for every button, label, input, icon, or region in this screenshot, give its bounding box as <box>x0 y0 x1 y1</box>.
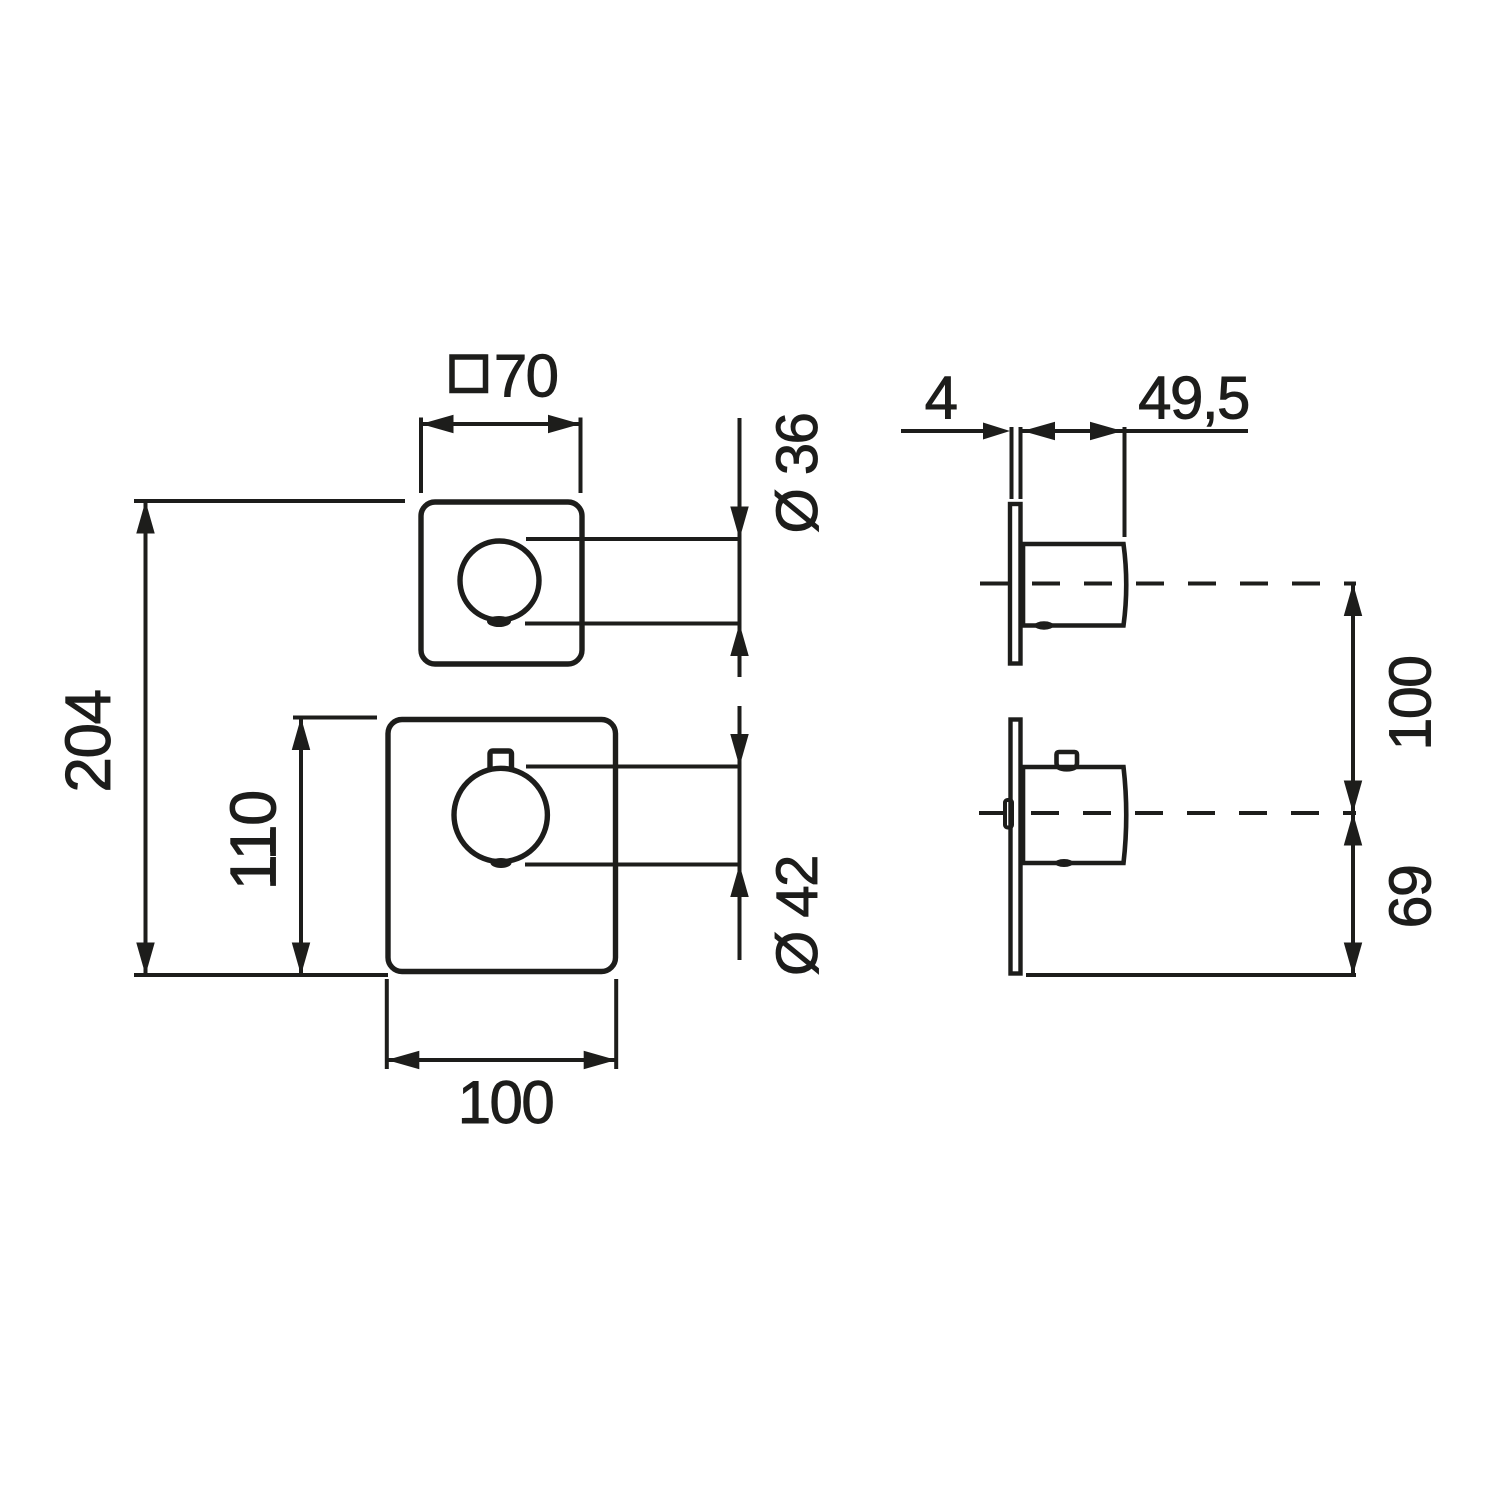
wire: dim 49,5 right tail <box>1125 429 1249 433</box>
top handle circle (diam 36) <box>460 541 539 620</box>
dim diam42 vertical line with arrows <box>738 706 742 960</box>
svg-text:110: 110 <box>216 791 289 890</box>
wire: diam36 bottom leader line <box>525 622 741 626</box>
bottom unit side: bottom notch (filled) <box>1055 859 1073 867</box>
top handle notch (filled) <box>487 616 511 627</box>
svg-text:100: 100 <box>458 1069 554 1136</box>
top escutcheon plate (front view, 70x70 rounded square) <box>421 502 582 664</box>
bottom unit side: safety button knob <box>1057 752 1078 769</box>
dim 100 right extension line <box>614 979 618 1069</box>
wire: 69 bottom extension line <box>1026 973 1356 977</box>
top unit side: escutcheon plate <box>1010 504 1021 664</box>
wall plate left extension line <box>1010 427 1014 499</box>
dim 49,5 line with arrows <box>1023 422 1056 441</box>
label square-70 symbol <box>452 357 486 391</box>
handle safety button tab (front) <box>490 751 512 768</box>
svg-text:4: 4 <box>925 364 957 431</box>
bottom handle notch (filled) <box>491 858 512 868</box>
wire: dim 204 top extension line <box>134 499 405 503</box>
wire: dim 110 top extension line <box>293 716 377 720</box>
wire: diam42 bottom leader line <box>525 863 741 867</box>
thermostat handle circle (diam 42) <box>454 768 547 861</box>
svg-text:204: 204 <box>52 690 124 792</box>
dim 110 vertical line with arrows <box>299 718 303 976</box>
dim 70: right extension line <box>579 418 583 494</box>
dim 49,5 right extension line <box>1123 427 1127 537</box>
svg-text:49,5: 49,5 <box>1138 364 1249 431</box>
dim diam36 vertical line with arrows <box>738 418 742 677</box>
bottom unit side: valve body <box>1023 767 1126 863</box>
dim 4/49,5: left tail line <box>901 429 985 433</box>
dim 100/69 vertical line with arrows <box>1351 584 1355 976</box>
wire: diam36 top leader line <box>526 537 741 541</box>
dim 70 horizontal line with arrows <box>421 422 581 426</box>
svg-text:69: 69 <box>1378 866 1444 929</box>
dim 204 vertical line with arrows <box>144 501 148 975</box>
dim 70: left extension line <box>419 418 423 494</box>
centerline top unit (dashed) <box>980 582 1356 586</box>
bottom unit side: rear bump <box>1005 800 1012 828</box>
dim 100 horizontal line with arrows <box>387 1058 616 1062</box>
wall plate right extension line <box>1019 427 1023 499</box>
svg-text:100: 100 <box>1378 657 1444 751</box>
centerline bottom unit (dashed) <box>979 811 1356 815</box>
top unit side: valve body <box>1023 544 1126 626</box>
top unit side: bottom notch (filled) <box>1035 621 1054 629</box>
bottom unit side: escutcheon plate <box>1011 720 1021 974</box>
svg-text:70: 70 <box>494 343 558 410</box>
svg-text:Ø 42: Ø 42 <box>765 856 830 976</box>
bottom escutcheon plate (front view, 100x110 rounded square) <box>388 720 616 972</box>
wire: dim 204 bottom extension line <box>134 973 388 977</box>
wire: diam42 top leader line <box>526 765 741 769</box>
svg-text:Ø 36: Ø 36 <box>765 414 830 534</box>
dim 100 left extension line <box>385 979 389 1069</box>
